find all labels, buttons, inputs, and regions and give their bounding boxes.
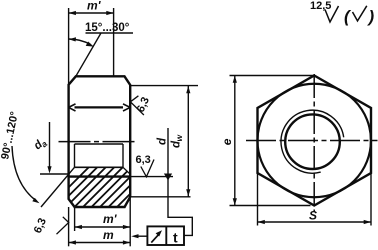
svg-text:d: d [157,137,169,145]
svg-text:m: m [103,228,114,242]
svg-text:6,3: 6,3 [136,154,151,166]
svg-text:S: S [309,209,317,223]
svg-text:m': m' [87,0,102,13]
svg-text:): ) [367,7,375,26]
svg-text:t: t [173,230,178,246]
svg-text:15°...30°: 15°...30° [85,22,130,34]
svg-text:e: e [220,138,234,145]
svg-text:12,5: 12,5 [310,0,331,12]
svg-text:m': m' [103,212,118,226]
